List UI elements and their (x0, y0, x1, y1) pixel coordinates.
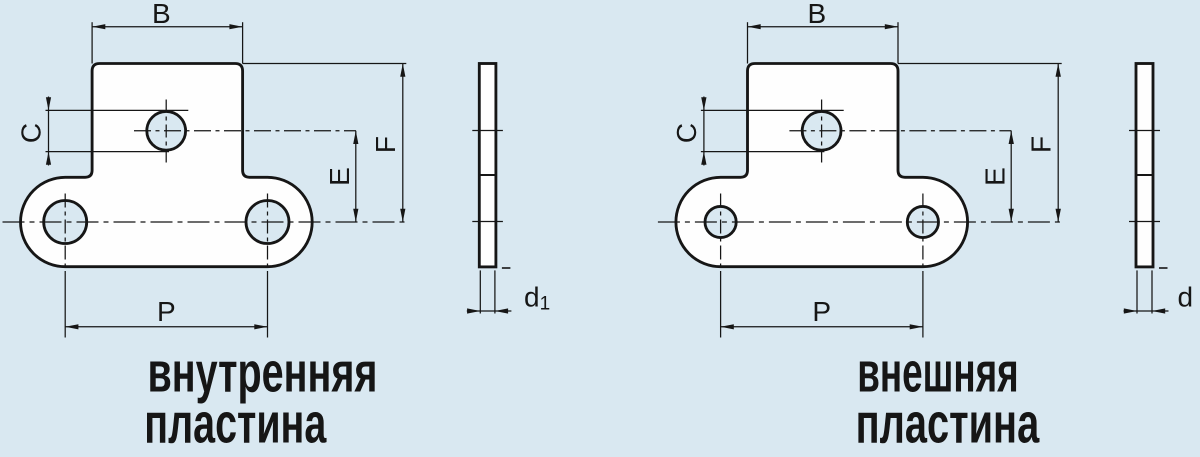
svg-text:пластина: пластина (144, 391, 327, 455)
svg-text:E: E (324, 167, 355, 186)
svg-text:d: d (1178, 282, 1194, 313)
svg-text:B: B (152, 0, 171, 29)
svg-text:B: B (807, 0, 826, 29)
svg-text:пластина: пластина (856, 391, 1041, 455)
svg-text:C: C (16, 123, 47, 143)
svg-text:F: F (370, 136, 401, 153)
svg-text:F: F (1025, 136, 1056, 153)
svg-text:C: C (671, 123, 702, 143)
svg-text:P: P (812, 296, 831, 327)
svg-text:E: E (979, 167, 1010, 186)
svg-text:P: P (157, 296, 176, 327)
